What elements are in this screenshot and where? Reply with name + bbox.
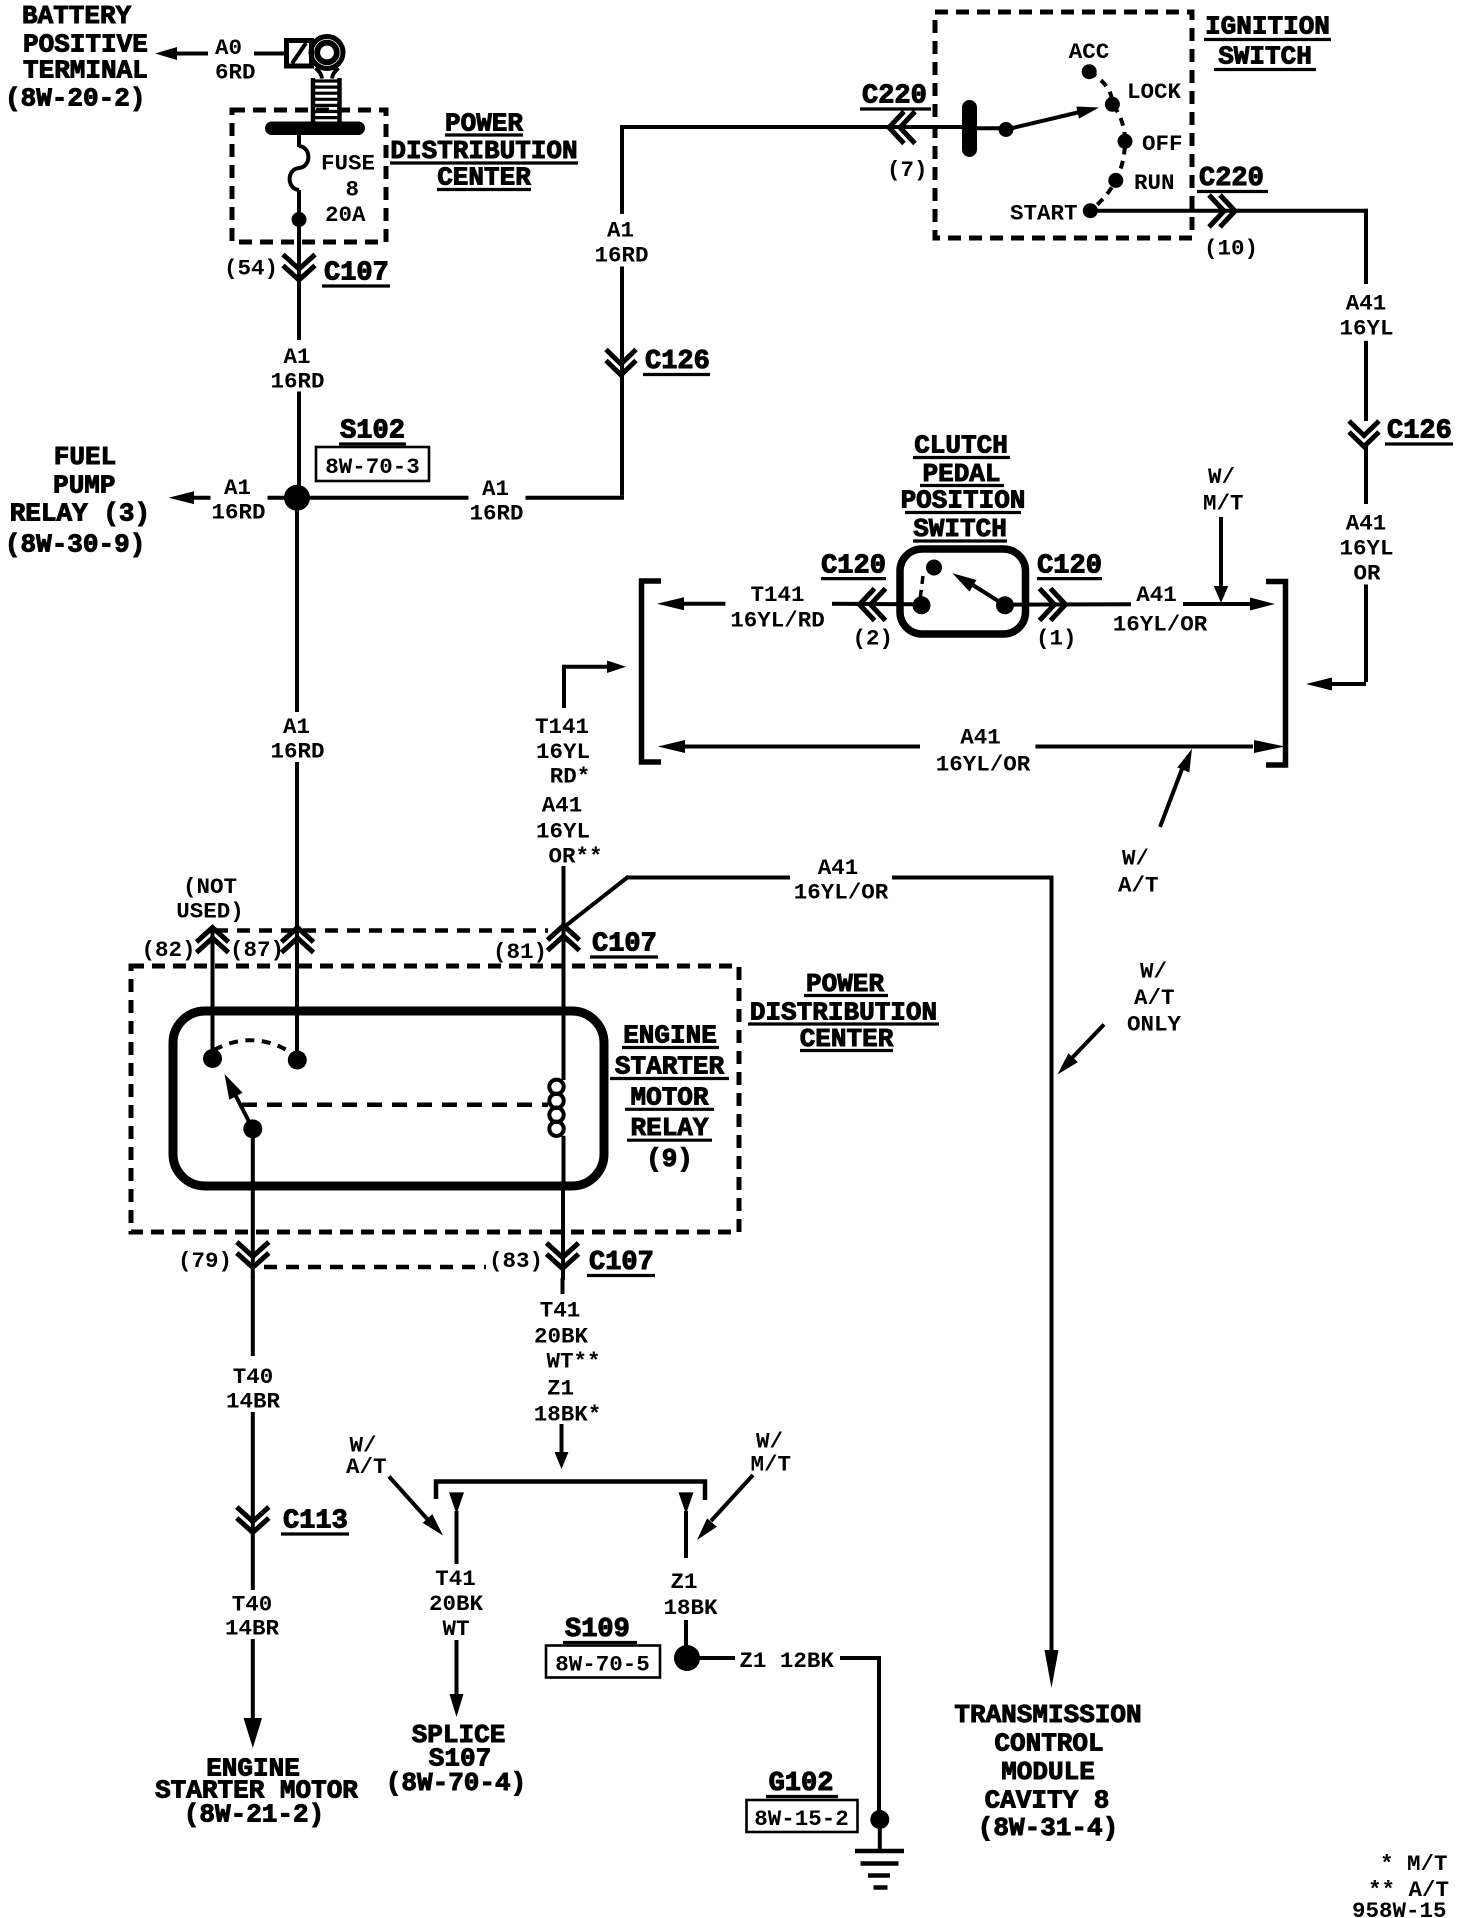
svg-text:C220: C220	[1199, 164, 1264, 194]
svg-text:TRANSMISSION: TRANSMISSION	[954, 1700, 1141, 1730]
connector C107 pin 81 chevron	[548, 926, 580, 941]
ignition position dot OFF	[1118, 134, 1133, 149]
svg-text:(8W-30-9): (8W-30-9)	[5, 530, 145, 560]
svg-text:(8W-31-4): (8W-31-4)	[978, 1813, 1118, 1843]
svg-text:16YL: 16YL	[1339, 536, 1393, 562]
svg-text:20BK: 20BK	[534, 1324, 589, 1350]
svg-text:A/T: A/T	[1118, 873, 1159, 899]
svg-text:C107: C107	[324, 259, 389, 289]
svg-text:A1: A1	[482, 476, 509, 502]
wire key bar to wiper pivot	[976, 126, 1000, 130]
svg-text:OR: OR	[1353, 561, 1381, 587]
svg-text:A41: A41	[542, 793, 583, 819]
ground symbol	[878, 1828, 882, 1850]
svg-text:16RD: 16RD	[594, 243, 648, 269]
ground G102 page box 8W-15-2	[747, 1800, 858, 1832]
svg-text:8W-15-2: 8W-15-2	[754, 1806, 849, 1832]
svg-text:16RD: 16RD	[211, 500, 265, 526]
svg-text:S102: S102	[340, 417, 405, 447]
diagonal branch to A/T wire	[564, 877, 629, 928]
svg-text:USED): USED)	[176, 899, 244, 925]
wire A1 to splice S102	[297, 392, 301, 486]
connector C107 interface dashed line (row 79/83)	[264, 1265, 486, 1270]
wire clutch switch to C120 pin 1	[1013, 602, 1131, 606]
clutch switch throw contact	[926, 560, 942, 576]
wire S102 to relay common	[295, 509, 299, 712]
svg-text:(2): (2)	[853, 626, 894, 652]
svg-text:FUEL: FUEL	[54, 442, 116, 472]
ignition key bar	[962, 100, 977, 157]
relay contact 87 dot	[288, 1051, 307, 1070]
svg-text:C220: C220	[862, 82, 927, 112]
svg-text:16YL: 16YL	[536, 819, 590, 845]
svg-text:START: START	[1010, 201, 1078, 227]
svg-text:CONTROL: CONTROL	[994, 1729, 1103, 1759]
svg-text:M/T: M/T	[751, 1452, 792, 1478]
relay contact arc (dashed)	[214, 1040, 292, 1053]
wire C107 83 down (T41/Z1)	[561, 1278, 565, 1294]
wire Z1 to splice S109	[684, 1511, 688, 1558]
splice S109 page box 8W-70-5	[546, 1646, 660, 1678]
svg-text:16RD: 16RD	[270, 739, 324, 765]
arrow to splice S107	[450, 1694, 464, 1717]
svg-text:16RD: 16RD	[469, 501, 523, 527]
clutch switch left contact	[913, 596, 931, 614]
wire T141 to clutch switch	[683, 602, 725, 606]
clutch switch dashed actuator	[920, 576, 923, 600]
relay actuation dashed link	[242, 1102, 548, 1107]
wire label A41 16YL OR	[1364, 444, 1368, 505]
svg-text:(10): (10)	[1204, 236, 1258, 262]
right bracket	[1266, 582, 1286, 766]
ignition position dot LOCK	[1105, 97, 1120, 112]
svg-text:C107: C107	[592, 930, 657, 960]
svg-text:(1): (1)	[1036, 626, 1077, 652]
wire Z1 12BK to ground G102	[699, 1656, 735, 1660]
engine starter motor relay body	[173, 1011, 604, 1186]
svg-text:T40: T40	[233, 1364, 274, 1390]
connector C126 chevron (right)	[1349, 421, 1379, 436]
wire riser A41 16YL	[1364, 209, 1368, 284]
svg-text:(8W-70-4): (8W-70-4)	[386, 1768, 526, 1798]
svg-text:16YL/OR: 16YL/OR	[794, 880, 889, 906]
power distribution center dashed box (top)	[232, 110, 386, 242]
svg-text:A1: A1	[224, 475, 251, 501]
arrow into right bracket (from ignition feed)	[1306, 678, 1332, 691]
ground junction dot	[870, 1810, 889, 1829]
connector C126 chevron (left)	[606, 350, 636, 365]
svg-text:ACC: ACC	[1069, 39, 1110, 65]
left bracket	[642, 581, 662, 762]
svg-text:C113: C113	[283, 1507, 348, 1537]
svg-text:16YL: 16YL	[1339, 316, 1393, 342]
ignition switch dashed box	[935, 12, 1192, 238]
svg-text:T41: T41	[435, 1566, 476, 1592]
connector C220 pin 7 chevron	[889, 112, 904, 144]
relay wiper contact dot	[243, 1119, 262, 1138]
splice S102 page box 8W-70-3	[316, 447, 429, 481]
svg-text:SWITCH: SWITCH	[1218, 42, 1312, 72]
splice S109 junction dot	[674, 1645, 700, 1671]
wire riser top run to ignition switch	[620, 125, 928, 129]
wire fuse to connector C107 pin 54	[297, 242, 301, 340]
arrow to fuel pump relay	[169, 491, 195, 504]
svg-text:S109: S109	[565, 1615, 630, 1645]
svg-text:(8W-20-2): (8W-20-2)	[5, 84, 145, 114]
svg-text:(NOT: (NOT	[183, 874, 237, 900]
svg-text:RUN: RUN	[1134, 170, 1175, 196]
wire S102 to fuel pump relay	[268, 496, 286, 500]
relay wiper arm	[234, 1092, 253, 1129]
connector C107 pin 87 chevron	[282, 928, 314, 943]
svg-text:PUMP: PUMP	[53, 470, 115, 500]
svg-text:16RD: 16RD	[270, 369, 324, 395]
ignition position dot START	[1083, 203, 1098, 218]
svg-text:WT: WT	[442, 1616, 469, 1642]
wire riser to C126 (A1 16RD)	[620, 267, 624, 496]
wire T41 to splice S107	[455, 1511, 459, 1564]
svg-text:18BK*: 18BK*	[534, 1402, 602, 1428]
arrow into right bracket (A41 M/T)	[1250, 598, 1275, 611]
svg-text:MODULE: MODULE	[1001, 1757, 1095, 1787]
ignition position dot ACC	[1082, 64, 1097, 79]
battery terminal connector block	[287, 41, 312, 67]
svg-text:C126: C126	[1387, 417, 1452, 447]
fuse 8 20A element	[297, 134, 301, 147]
svg-text:14BR: 14BR	[226, 1389, 281, 1415]
clutch pedal position switch body	[900, 549, 1026, 634]
svg-text:8: 8	[346, 177, 360, 203]
wire bracket elbow to C107 pin 81	[564, 665, 607, 669]
svg-text:C107: C107	[589, 1248, 654, 1278]
arrow into left bracket (T141)	[657, 597, 684, 610]
arrow to battery positive terminal	[155, 47, 177, 60]
svg-text:TERMINAL: TERMINAL	[23, 56, 148, 86]
svg-text:WT**: WT**	[546, 1349, 600, 1375]
svg-text:A1: A1	[607, 218, 634, 244]
svg-text:T40: T40	[232, 1592, 273, 1618]
connector C107 pin 54 chevron	[283, 255, 315, 270]
svg-text:OR**: OR**	[548, 844, 602, 870]
ignition position dot RUN	[1108, 173, 1123, 188]
svg-text:6RD: 6RD	[215, 60, 256, 86]
svg-text:(7): (7)	[887, 157, 928, 183]
connector C107 interface dashed line (row 81/82/87)	[215, 928, 548, 933]
svg-text:RD*: RD*	[550, 764, 591, 790]
terminal neck	[316, 68, 339, 79]
svg-text:W/: W/	[756, 1429, 783, 1455]
threaded battery post	[311, 78, 316, 122]
svg-text:G102: G102	[769, 1769, 834, 1799]
svg-text:A/T: A/T	[346, 1454, 387, 1480]
splice S102 junction dot	[284, 485, 310, 511]
svg-text:Z1: Z1	[670, 1569, 697, 1595]
svg-text:Z1 12BK: Z1 12BK	[739, 1648, 834, 1674]
svg-text:20BK: 20BK	[429, 1591, 484, 1617]
svg-text:16YL/RD: 16YL/RD	[730, 608, 825, 634]
wire START to C220 pin 10	[1097, 209, 1240, 213]
svg-text:(54): (54)	[224, 256, 278, 282]
svg-text:(87): (87)	[230, 937, 284, 963]
wire S102 to ignition switch feed	[309, 496, 469, 500]
connector C120 pin 1 chevron	[1051, 589, 1066, 621]
svg-text:T141: T141	[535, 714, 589, 740]
svg-text:A41: A41	[1346, 511, 1387, 537]
svg-text:W/: W/	[1122, 846, 1149, 872]
svg-text:(83): (83)	[489, 1248, 543, 1274]
svg-text:(82): (82)	[142, 937, 196, 963]
power distribution center dashed box (relay)	[131, 966, 739, 1232]
svg-text:16YL: 16YL	[536, 739, 590, 765]
svg-text:A41: A41	[1346, 291, 1387, 317]
svg-text:(8W-21-2): (8W-21-2)	[184, 1800, 324, 1830]
svg-text:IGNITION: IGNITION	[1205, 12, 1330, 42]
wire relay wiper to C107 pin 79	[251, 1138, 255, 1278]
svg-text:16YL/OR: 16YL/OR	[936, 752, 1031, 778]
svg-text:M/T: M/T	[1203, 491, 1244, 517]
arrow to engine starter motor	[244, 1718, 263, 1748]
svg-text:14BR: 14BR	[225, 1616, 280, 1642]
svg-text:16YL/OR: 16YL/OR	[1113, 612, 1208, 638]
svg-text:W/: W/	[1140, 959, 1167, 985]
svg-text:CAVITY 8: CAVITY 8	[985, 1785, 1110, 1815]
long riser to transmission control module	[1050, 876, 1054, 1651]
svg-text:A0: A0	[215, 35, 242, 61]
wire riser elbow to bracket	[1364, 585, 1368, 683]
svg-text:A1: A1	[283, 714, 310, 740]
svg-text:Z1: Z1	[547, 1376, 574, 1402]
svg-text:A41: A41	[960, 725, 1001, 751]
wire C107 79 to C113 (T40 14BR)	[251, 1276, 255, 1356]
svg-text:C126: C126	[645, 347, 710, 377]
relay contact 82 dot	[203, 1049, 222, 1068]
svg-text:* M/T: * M/T	[1380, 1851, 1448, 1877]
right split arrow (Z1)	[679, 1492, 694, 1514]
connector C107 pin 79 chevron	[237, 1242, 269, 1257]
connector C120 pin 2 chevron	[860, 589, 875, 621]
svg-text:(81): (81)	[493, 939, 547, 965]
connector C220 pin 10 chevron	[1220, 195, 1235, 227]
connector C107 pin 82 chevron	[197, 928, 229, 943]
wire C107 82 to relay contact	[211, 929, 215, 1052]
wire C113 to engine starter motor	[251, 1535, 255, 1590]
svg-text:W/: W/	[1208, 464, 1235, 490]
connector C113 chevron	[237, 1507, 269, 1522]
svg-text:FUSE: FUSE	[321, 151, 375, 177]
ignition wiper pivot	[999, 122, 1014, 137]
svg-text:18BK: 18BK	[663, 1595, 718, 1621]
wire relay coil to C107 pin 83	[561, 1186, 565, 1280]
svg-text:A41: A41	[818, 855, 859, 881]
ignition wiper arm to LOCK	[1006, 112, 1082, 130]
battery ring terminal	[311, 37, 343, 69]
svg-text:A41: A41	[1136, 582, 1177, 608]
split bracket (staple)	[436, 1482, 705, 1501]
wire A41 16YL/OR to TCM riser	[626, 876, 790, 880]
svg-text:(79): (79)	[178, 1248, 232, 1274]
svg-text:RELAY (3): RELAY (3)	[10, 499, 150, 529]
arrow into split bracket	[560, 1424, 564, 1452]
clutch switch right contact	[996, 596, 1014, 614]
wire C220 to right riser	[1238, 209, 1368, 213]
clutch switch wiper arm	[972, 585, 1005, 606]
svg-text:958W-15: 958W-15	[1352, 1898, 1447, 1918]
wire A0 to ring terminal	[254, 52, 289, 56]
svg-text:BATTERY: BATTERY	[22, 1, 132, 31]
svg-text:A1: A1	[283, 344, 310, 370]
svg-text:ONLY: ONLY	[1127, 1012, 1182, 1038]
svg-text:LOCK: LOCK	[1127, 79, 1182, 105]
svg-text:A/T: A/T	[1134, 985, 1175, 1011]
svg-text:8W-70-5: 8W-70-5	[555, 1652, 650, 1678]
svg-text:(9): (9)	[646, 1144, 693, 1174]
power distribution center bus bar	[265, 122, 365, 136]
ignition detent dashed arc	[1089, 72, 1125, 211]
svg-text:8W-70-3: 8W-70-3	[325, 454, 420, 480]
svg-text:T141: T141	[750, 582, 804, 608]
lower alternate wire A41 16YL/OR (A/T path)	[658, 740, 685, 753]
svg-text:T41: T41	[540, 1298, 581, 1324]
svg-text:OFF: OFF	[1142, 131, 1183, 157]
relay coil	[549, 1080, 563, 1094]
wire into ignition switch	[925, 125, 963, 129]
arrow to transmission control module	[1045, 1650, 1059, 1688]
connector C107 pin 83 chevron	[547, 1243, 579, 1258]
left split arrow (T41)	[449, 1492, 464, 1514]
svg-text:20A: 20A	[325, 202, 366, 228]
